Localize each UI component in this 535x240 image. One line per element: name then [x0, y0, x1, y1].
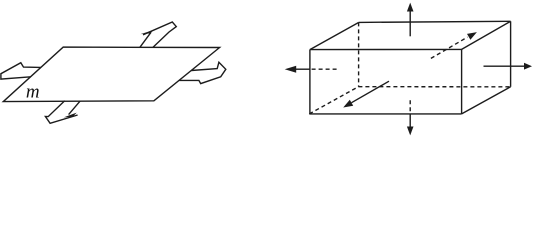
box bottom-right depth edge [462, 87, 511, 114]
box front bottom edge [309, 113, 461, 115]
down arrow head [407, 127, 414, 136]
svg-text:m: m [26, 82, 40, 103]
top extend arrow folded tip sliver [144, 31, 152, 33]
up arrow shaft [409, 8, 411, 36]
right arrow shaft [484, 65, 526, 67]
bottom extend arrow folded tip sliver [66, 113, 76, 117]
plane m (parallelogram outline) [3, 47, 219, 102]
box top-left depth edge [310, 22, 359, 49]
right arrow head [524, 63, 532, 70]
box back right edge [510, 21, 512, 87]
down arrow hidden shaft (dashed) [409, 100, 411, 114]
left arrow shaft [295, 68, 311, 70]
up arrow head [407, 3, 414, 12]
left arrow head [285, 66, 297, 73]
box front right edge [461, 49, 463, 114]
box hidden back left edge (dashed) [358, 22, 360, 86]
box top-right depth edge [462, 21, 511, 49]
top extend arrow shaft left line [140, 32, 151, 47]
left extend arrow (outline arrow pointing left) [1, 63, 41, 79]
right extend arrow (outline arrow pointing right) [179, 62, 226, 83]
box back top edge [359, 21, 511, 22]
down arrow shaft [409, 114, 411, 130]
back diagonal arrow hidden shaft (dashed) [431, 37, 468, 58]
back diagonal arrow head [467, 32, 477, 40]
top extend arrow head outline [143, 22, 176, 47]
left arrow hidden shaft (dashed) [310, 68, 337, 70]
box front top edge [310, 48, 462, 50]
front diagonal arrow shaft [352, 81, 390, 103]
bottom extend arrow shaft right line [69, 101, 81, 115]
box hidden bottom-left depth edge (dashed) [309, 87, 358, 114]
box hidden back bottom edge (dashed) [358, 86, 510, 88]
bottom extend arrow head outline [45, 101, 77, 124]
box front left edge [309, 50, 311, 114]
front diagonal arrow head [343, 100, 353, 108]
